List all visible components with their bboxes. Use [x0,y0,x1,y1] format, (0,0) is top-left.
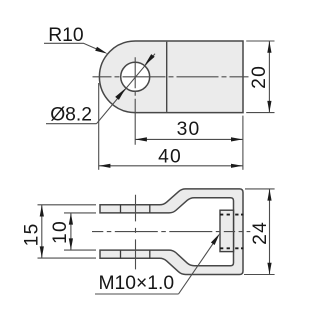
svg-text:40: 40 [158,147,182,168]
hole hidden tick lower-left [120,250,122,258]
dimension 30 line [135,138,243,140]
hole hidden tick upper-left [120,205,122,213]
dimension 10 extension lines [64,212,96,214]
hole hidden tick lower-right [149,250,151,258]
svg-text:15: 15 [21,222,42,246]
top view horizontal centerline [93,76,251,78]
dimension 15 extension lines [38,204,97,206]
svg-text:Ø8.2: Ø8.2 [50,104,92,125]
svg-text:30: 30 [177,119,201,140]
dimension 24 line [269,189,271,275]
leader Ø8.2 [46,123,97,125]
bottom view horizontal centerline [92,231,250,233]
thread boss box [220,210,234,251]
thread hidden line bottom [220,247,243,249]
dimension 40 left extension [98,83,100,170]
bottom view: clevis band outline [100,189,243,275]
top view: boss edge line [166,42,168,112]
leader M10x1.0 [95,293,179,295]
hole hidden tick upper-right [149,205,151,213]
bottom view vertical centerline [135,195,137,270]
svg-text:M10×1.0: M10×1.0 [99,273,175,294]
top view: bracket body outline [99,41,243,113]
hole circle Ø8.2 [121,62,150,91]
dimension 40 right extension [242,116,244,170]
leader R10 [44,43,98,49]
svg-text:10: 10 [50,220,71,244]
thread hidden line top [220,214,243,216]
dimension 20 extension lines [246,40,274,42]
top view vertical centerline through hole [134,57,136,144]
dimension 40 line [99,165,243,167]
dimension 24 extension lines [245,188,275,190]
dimension 20 line [268,41,270,113]
svg-text:24: 24 [250,221,271,245]
svg-text:20: 20 [249,65,270,89]
dimension 15 line [41,205,43,258]
dimension 10 line [70,213,72,250]
